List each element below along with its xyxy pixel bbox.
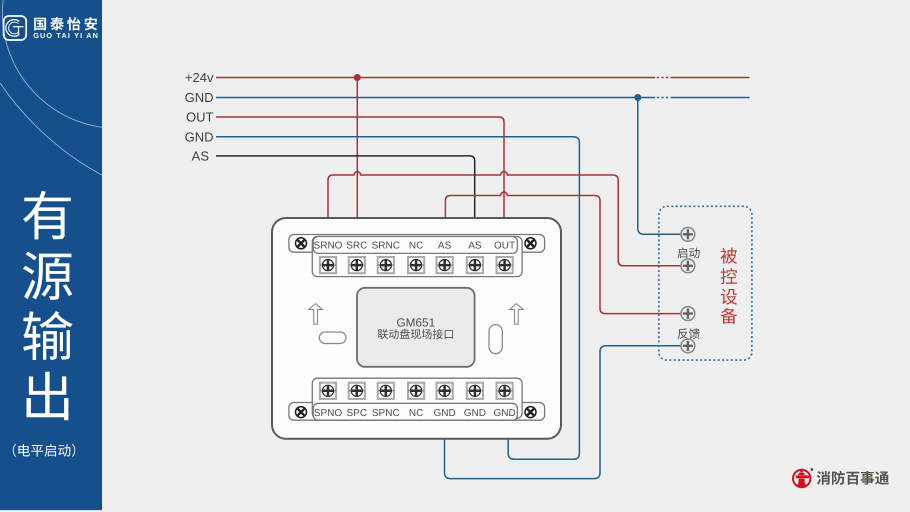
terminal AS (top) bbox=[467, 241, 483, 274]
arrow marker left bbox=[309, 304, 323, 325]
svg-text:GND: GND bbox=[433, 408, 455, 419]
fire 119 logo icon bbox=[793, 468, 813, 487]
terminal GND (bottom) bbox=[433, 383, 455, 419]
wire AS5 to terminal 反馈+ bbox=[445, 192, 681, 314]
svg-text:GUO TAI YI AN: GUO TAI YI AN bbox=[33, 31, 99, 40]
terminal GND (bottom) bbox=[493, 383, 515, 419]
arrow marker right bbox=[510, 304, 524, 325]
terminal SPNC (bottom) bbox=[372, 383, 400, 419]
svg-text:OUT: OUT bbox=[186, 110, 214, 125]
mounting screw top-right bbox=[525, 238, 536, 249]
terminal 启动- bbox=[681, 259, 695, 273]
junction +24v/SRC bbox=[354, 74, 361, 81]
subtitle (电平启动) bbox=[13, 444, 76, 457]
label 启动 bbox=[677, 247, 699, 258]
terminal OUT (top) bbox=[494, 241, 515, 274]
svg-text:GND: GND bbox=[185, 90, 214, 105]
wire SRNO to terminal 启动- bbox=[328, 172, 681, 266]
svg-text:SPC: SPC bbox=[347, 408, 368, 419]
device label 被控设备 bbox=[721, 248, 738, 324]
svg-text:SRC: SRC bbox=[346, 241, 367, 252]
svg-text:SPNC: SPNC bbox=[372, 408, 400, 419]
controlled device dashed box bbox=[659, 206, 752, 360]
label 反馈 bbox=[678, 328, 700, 339]
svg-text:AS: AS bbox=[438, 241, 452, 252]
svg-text:SRNC: SRNC bbox=[372, 241, 400, 252]
svg-text:AS: AS bbox=[192, 149, 210, 164]
mounting screw bottom-left bbox=[296, 407, 307, 418]
pill marker right bbox=[489, 325, 502, 354]
wire GND bus bbox=[216, 97, 750, 99]
logo text 消防百事通 bbox=[817, 471, 889, 485]
sidebar panel bbox=[0, 0, 530, 512]
terminal SRC (top) bbox=[346, 241, 367, 274]
svg-text:NC: NC bbox=[409, 408, 423, 419]
terminal GND (bottom) bbox=[464, 383, 486, 419]
wire bottom GND5 to terminal 反馈- bbox=[445, 346, 682, 479]
junction GND/start bbox=[634, 94, 641, 101]
svg-text:SRNO: SRNO bbox=[314, 241, 343, 252]
svg-text:AS: AS bbox=[468, 241, 482, 252]
terminal SRNO (top) bbox=[314, 241, 343, 274]
company name 国泰怡安 bbox=[34, 17, 97, 30]
mounting screw top-left bbox=[296, 238, 307, 249]
svg-text:GND: GND bbox=[464, 408, 486, 419]
module GM651 body bbox=[272, 218, 561, 439]
top terminal strip bbox=[289, 235, 545, 277]
pill marker left bbox=[319, 332, 346, 344]
terminal AS (top) bbox=[437, 241, 453, 274]
svg-text:NC: NC bbox=[409, 241, 423, 252]
svg-text:SPNO: SPNO bbox=[314, 408, 343, 419]
terminal 启动+ bbox=[681, 227, 695, 241]
center block GM651 label bbox=[357, 288, 475, 367]
wire OUT to terminal OUT bbox=[216, 117, 504, 218]
wire +24v to terminal SRC bbox=[356, 78, 358, 219]
terminal NC (bottom) bbox=[408, 383, 424, 419]
terminal SPNO (bottom) bbox=[314, 383, 343, 419]
svg-text:OUT: OUT bbox=[494, 241, 515, 252]
terminal 反馈- bbox=[681, 339, 695, 353]
wire +24v bus bbox=[216, 77, 750, 79]
company logo GT mark bbox=[4, 16, 27, 40]
svg-text:+24v: +24v bbox=[185, 70, 214, 85]
wire GND to terminal 启动+ bbox=[638, 98, 681, 235]
wire AS to terminal AS6 bbox=[216, 156, 475, 218]
mounting screw bottom-right bbox=[525, 407, 536, 418]
svg-text:GND: GND bbox=[185, 129, 214, 144]
wire GND2 to bottom terminal GND7 bbox=[216, 137, 579, 460]
terminal SPC (bottom) bbox=[347, 383, 368, 419]
svg-text:GM651: GM651 bbox=[396, 315, 435, 329]
terminal 反馈+ bbox=[681, 307, 695, 321]
title 有源输出 bbox=[23, 191, 73, 421]
svg-text:GND: GND bbox=[493, 408, 515, 419]
terminal SRNC (top) bbox=[372, 241, 400, 274]
bottom terminal strip bbox=[289, 378, 545, 420]
terminal NC (top) bbox=[408, 241, 424, 274]
